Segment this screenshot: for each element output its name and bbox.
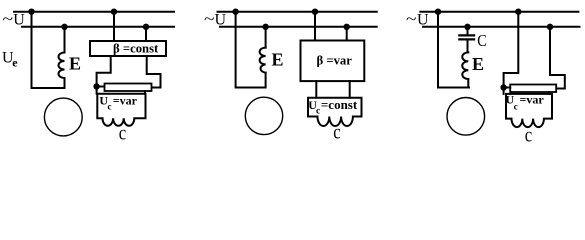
svg-text:~: ~ — [406, 12, 417, 28]
svg-text:E: E — [472, 54, 484, 74]
svg-text:β =var: β =var — [317, 54, 353, 68]
svg-text:e: e — [12, 56, 18, 70]
svg-text:c: c — [514, 101, 518, 111]
svg-text:β =const: β =const — [113, 42, 159, 56]
svg-text:C: C — [477, 31, 487, 50]
svg-text:=const: =const — [321, 97, 358, 112]
svg-text:~: ~ — [204, 12, 215, 28]
svg-text:c: c — [316, 106, 320, 116]
svg-text:U: U — [417, 11, 429, 28]
svg-text:U: U — [13, 11, 25, 28]
svg-text:c: c — [119, 122, 126, 144]
svg-text:=var: =var — [520, 93, 545, 107]
svg-text:E: E — [272, 50, 284, 70]
svg-text:c: c — [108, 102, 112, 112]
svg-text:c: c — [525, 124, 532, 146]
svg-text:~: ~ — [3, 12, 14, 28]
svg-text:U: U — [215, 11, 227, 28]
svg-text:c: c — [333, 121, 340, 143]
svg-text:=var: =var — [113, 93, 138, 107]
svg-text:E: E — [69, 54, 81, 74]
